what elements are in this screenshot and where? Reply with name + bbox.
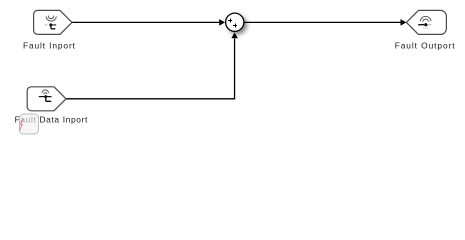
svg-text:Fault Outport: Fault Outport xyxy=(395,41,456,51)
svg-text:Fault Inport: Fault Inport xyxy=(23,41,76,51)
